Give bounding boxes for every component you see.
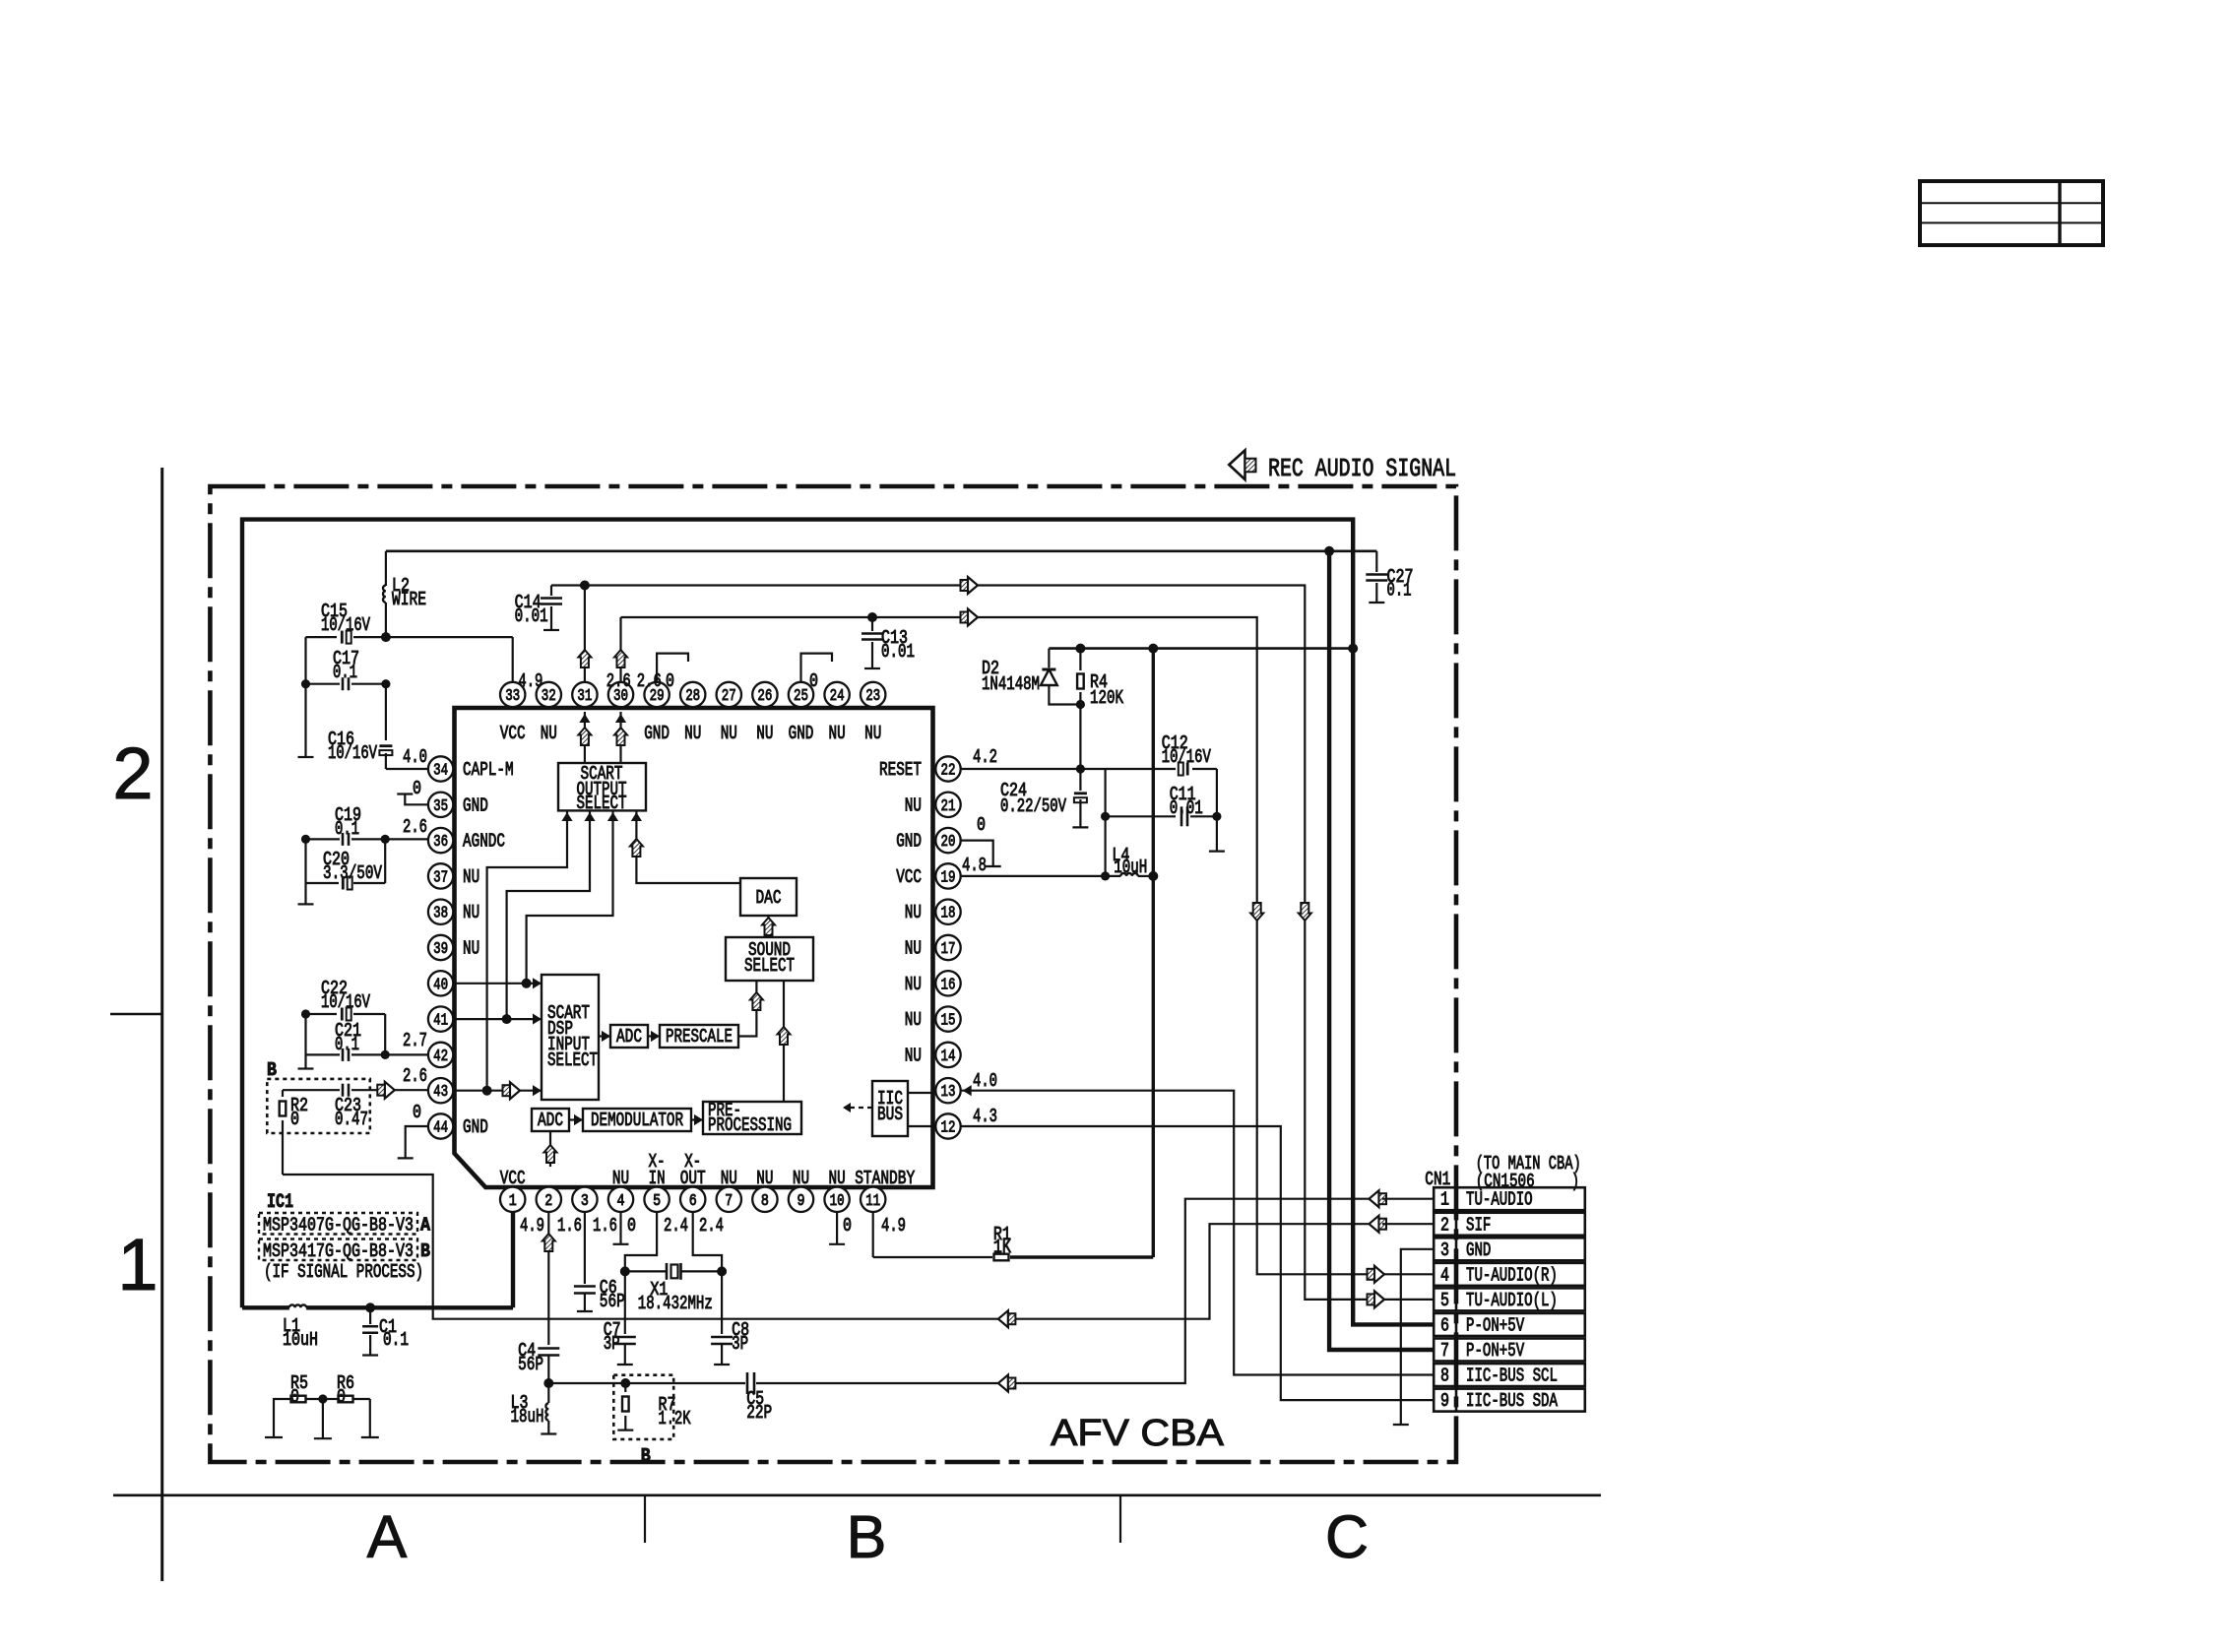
wire left rail C15/C17 (304, 637, 306, 757)
inductor L4 (1120, 873, 1137, 876)
wire P-ON+5V top bus (242, 520, 1434, 1325)
svg-text:0.01: 0.01 (515, 605, 548, 627)
capacitor C5 (746, 1372, 749, 1394)
inductor L2 (385, 551, 387, 586)
capacitor C19 (306, 838, 341, 840)
wire right rail C22/C21 (384, 1014, 386, 1054)
wire standby bus (1049, 647, 1353, 650)
svg-text:4.0: 4.0 (403, 746, 427, 768)
resistor R6 (318, 1394, 327, 1403)
svg-text:21: 21 (941, 796, 956, 815)
svg-text:VCC: VCC (500, 723, 526, 744)
svg-text:IN: IN (649, 1168, 666, 1189)
svg-text:0.22/50V: 0.22/50V (1000, 795, 1066, 817)
gnd stub above pin25 (801, 654, 833, 681)
pin 3 (572, 1187, 597, 1212)
svg-text:C: C (1325, 1503, 1369, 1570)
wire pin13 IIC SCL to row8 (961, 1091, 1434, 1375)
svg-text:IC1: IC1 (267, 1191, 293, 1214)
svg-text:MSP3407G-QG-B8-V3: MSP3407G-QG-B8-V3 (263, 1215, 414, 1237)
pin 5 (644, 1187, 669, 1212)
pin 36 (428, 828, 453, 853)
svg-text:0: 0 (290, 1386, 299, 1408)
wire standby vertical (1152, 649, 1155, 1257)
connector CN1 pin 6 P-ON+5V (1434, 1313, 1585, 1336)
svg-text:7: 7 (1440, 1340, 1449, 1362)
wire pin19 VCC line (961, 875, 1121, 877)
svg-text:P-ON+5V: P-ON+5V (1466, 1340, 1525, 1362)
crystal X1 (620, 1266, 630, 1276)
resistor R7 1.2K in B box (620, 1378, 630, 1388)
svg-text:10/16V: 10/16V (328, 742, 377, 764)
svg-text:5: 5 (1440, 1290, 1449, 1311)
pin 9 (789, 1187, 813, 1212)
svg-text:4: 4 (1440, 1264, 1449, 1286)
svg-text:27: 27 (722, 686, 736, 705)
offpage arrow TU-AUDIO(R) row4 (1374, 1266, 1384, 1283)
svg-text:(IF SIGNAL PROCESS): (IF SIGNAL PROCESS) (264, 1261, 423, 1283)
svg-text:2.4: 2.4 (699, 1215, 724, 1237)
svg-text:22: 22 (941, 761, 956, 780)
svg-text:10/16V: 10/16V (321, 614, 370, 636)
wire L2 bus (386, 549, 1329, 552)
pin 42 (428, 1043, 453, 1067)
svg-text:1: 1 (1440, 1189, 1449, 1211)
svg-text:3P: 3P (732, 1333, 748, 1355)
pin 12 (935, 1113, 960, 1138)
svg-text:NU: NU (905, 794, 922, 816)
pin 18 (935, 900, 960, 924)
node C1 junction (365, 1303, 375, 1312)
dashed arrow into IIC BUS (845, 1107, 872, 1109)
offpage arrow line A (998, 1310, 1008, 1327)
svg-text:1K: 1K (993, 1237, 1011, 1258)
block PRESCALE (660, 1025, 738, 1048)
pin 39 (428, 935, 453, 960)
svg-text:0.01: 0.01 (881, 641, 915, 663)
svg-text:0.01: 0.01 (1170, 797, 1203, 819)
wire SOUND SELECT to PRE-PROCESSING (783, 981, 785, 1102)
wire scart-out v2 to pin41 (507, 810, 590, 1019)
svg-text:24: 24 (830, 686, 845, 705)
pin 17 (935, 935, 960, 960)
svg-text:4.9: 4.9 (881, 1215, 906, 1237)
offpage arrow TU-AUDIO row1 (1370, 1190, 1379, 1207)
hatch arrow pin43 internal (510, 1082, 520, 1099)
wire pin5 X-IN (625, 1212, 657, 1271)
pin 22 (935, 756, 960, 781)
svg-text:2.7: 2.7 (403, 1030, 427, 1051)
wire pin12 IIC SDA to row9 (961, 1126, 1434, 1400)
wire ADC2 bottom stub (549, 1131, 551, 1167)
component box B dashed (R7) (613, 1375, 673, 1439)
svg-text:MSP3417G-QG-B8-V3: MSP3417G-QG-B8-V3 (263, 1240, 414, 1262)
pin 43 (428, 1078, 453, 1103)
svg-text:38: 38 (433, 904, 448, 922)
block ADC (top) (610, 1025, 648, 1048)
wire IIC BUS to pin12 (908, 1125, 935, 1127)
capacitor C7 (624, 1271, 626, 1334)
offpage arrow bus1 (968, 577, 978, 594)
svg-text:22P: 22P (746, 1402, 772, 1424)
pin 40 (428, 971, 453, 995)
offpage arrow bus2 (968, 609, 978, 626)
capacitor C11 (1106, 815, 1176, 817)
svg-text:B: B (420, 1240, 430, 1262)
svg-text:DAC: DAC (756, 887, 782, 909)
svg-text:REC AUDIO SIGNAL: REC AUDIO SIGNAL (1268, 454, 1456, 483)
wire DEMODULATOR to PRE-PROCESSING (691, 1118, 703, 1120)
svg-text:2.6: 2.6 (403, 1065, 427, 1087)
svg-text:4.8: 4.8 (962, 855, 987, 876)
pin 32 (537, 682, 561, 707)
svg-text:GND: GND (644, 723, 670, 744)
svg-text:2.4: 2.4 (664, 1215, 688, 1237)
svg-text:VCC: VCC (500, 1168, 526, 1189)
svg-text:2: 2 (1440, 1214, 1449, 1236)
connector CN1 pin 7 P-ON+5V (1434, 1339, 1585, 1362)
svg-text:0: 0 (666, 670, 674, 692)
svg-text:NU: NU (463, 902, 479, 923)
capacitor C23 (283, 1089, 340, 1091)
svg-text:25: 25 (794, 686, 808, 705)
capacitor C20 (306, 882, 340, 884)
svg-text:10uH: 10uH (283, 1329, 318, 1351)
svg-text:14: 14 (941, 1047, 956, 1065)
svg-text:31: 31 (577, 686, 592, 705)
node row7 start (1324, 546, 1334, 556)
connector CN1 pin 5 TU-AUDIO(L) (1434, 1288, 1585, 1310)
wire pin20 GND stub (961, 841, 993, 866)
svg-text:CAPL-M: CAPL-M (463, 759, 514, 781)
svg-text:10uH: 10uH (1114, 857, 1147, 878)
svg-text:42: 42 (433, 1047, 448, 1065)
svg-text:26: 26 (757, 686, 772, 705)
svg-text:TU-AUDIO(R): TU-AUDIO(R) (1466, 1264, 1558, 1286)
pin 19 (935, 863, 960, 888)
wire P-ON+5V row7 vertical (1329, 551, 1434, 1350)
svg-text:10/16V: 10/16V (321, 991, 370, 1013)
wire pin31 column internal (584, 712, 586, 763)
wire line B TU-AUDIO (548, 1382, 745, 1384)
svg-text:0: 0 (627, 1215, 636, 1237)
capacitor C24 (1076, 764, 1085, 773)
offpage arrow line B (998, 1375, 1008, 1392)
REC AUDIO SIGNAL arrow (1229, 450, 1244, 479)
svg-text:2.6: 2.6 (403, 816, 427, 838)
pin 41 (428, 1006, 453, 1031)
wire ADC2 to DEMODULATOR (569, 1118, 583, 1120)
wire IIC BUS to pin13 (908, 1092, 935, 1094)
svg-text:32: 32 (542, 686, 556, 705)
offpage arrow into pin43 (385, 1082, 395, 1099)
svg-text:10/16V: 10/16V (1162, 746, 1211, 768)
wire DAC to SOUND SELECT (767, 916, 769, 937)
svg-text:0: 0 (413, 1102, 421, 1123)
svg-text:35: 35 (433, 796, 448, 815)
connector CN1 pin 9 IIC-BUS SDA (1434, 1389, 1585, 1412)
svg-text:12: 12 (941, 1118, 956, 1137)
bottom axis line (113, 1494, 1601, 1497)
node L2/C15 (381, 632, 391, 642)
svg-text:4.0: 4.0 (973, 1070, 997, 1092)
capacitor C1 (369, 1307, 371, 1324)
svg-text:0: 0 (843, 1215, 852, 1237)
svg-text:BUS: BUS (877, 1104, 903, 1125)
wire pin35 GND stub (405, 794, 428, 805)
svg-text:7: 7 (725, 1191, 733, 1210)
svg-text:TU-AUDIO: TU-AUDIO (1466, 1189, 1533, 1211)
wire pin30 riser (619, 617, 621, 681)
pin 38 (428, 900, 453, 924)
svg-text:): ) (1571, 1171, 1579, 1192)
svg-text:16: 16 (941, 975, 956, 993)
pin 2 (537, 1187, 561, 1212)
zone divider tick 2/1 (110, 1013, 162, 1016)
svg-text:NU: NU (905, 974, 922, 995)
svg-text:NU: NU (756, 723, 773, 744)
svg-text:10: 10 (830, 1191, 845, 1210)
wire pin31 riser (584, 586, 586, 682)
wire C11 left leg (1104, 769, 1106, 876)
pin 4 (608, 1187, 633, 1212)
diode D2 1N4148M (1048, 649, 1050, 667)
board outline dash-dot border (210, 486, 1456, 1462)
wire pin40 into DSP select (453, 983, 542, 985)
IC1 part B dashed box (259, 1239, 417, 1261)
wire pin43 into DSP select (453, 1090, 542, 1092)
svg-text:TU-AUDIO(L): TU-AUDIO(L) (1466, 1290, 1558, 1311)
block IIC BUS (872, 1081, 908, 1136)
svg-text:IIC-BUS SCL: IIC-BUS SCL (1466, 1366, 1558, 1387)
svg-text:SELECT: SELECT (577, 793, 627, 814)
svg-text:2.6: 2.6 (637, 670, 662, 692)
svg-text:B: B (847, 1503, 887, 1570)
svg-text:AFV CBA: AFV CBA (1051, 1413, 1225, 1454)
svg-text:56P: 56P (518, 1354, 543, 1375)
IC U IC1 body outline (455, 708, 933, 1187)
capacitor C15 (306, 636, 338, 638)
svg-text:28: 28 (685, 686, 700, 705)
svg-text:NU: NU (541, 723, 557, 744)
hatch arrow on TU-AUDIO(L) drop (1299, 903, 1311, 921)
svg-text:IIC-BUS SDA: IIC-BUS SDA (1466, 1390, 1558, 1412)
wire ADC to PRESCALE (648, 1035, 660, 1037)
node C19/C20 right rail (381, 835, 390, 844)
svg-text:STANDBY: STANDBY (855, 1168, 915, 1189)
svg-text:SIF: SIF (1466, 1214, 1491, 1236)
block DAC (740, 878, 797, 916)
svg-text:OUT: OUT (680, 1168, 706, 1189)
svg-text:NU: NU (829, 1168, 846, 1189)
pin 44 (428, 1113, 453, 1138)
svg-text:NU: NU (864, 723, 881, 744)
resistor R4 120K (1079, 649, 1081, 670)
svg-text:WIRE: WIRE (392, 589, 426, 610)
svg-text:1: 1 (117, 1224, 158, 1305)
wire pin2 column (547, 1212, 549, 1345)
svg-text:GND: GND (789, 723, 814, 744)
capacitor C21 (306, 1053, 341, 1055)
svg-text:23: 23 (865, 686, 880, 705)
pin 21 (935, 793, 960, 817)
svg-text:8: 8 (1440, 1366, 1449, 1387)
svg-text:ADC: ADC (616, 1026, 642, 1048)
svg-text:NU: NU (684, 723, 701, 744)
block PRE-PROCESSING (703, 1102, 801, 1134)
wire C21 to pin42 (385, 1053, 428, 1055)
svg-text:36: 36 (433, 832, 448, 851)
offpage arrow SIF row2 (1370, 1216, 1379, 1233)
svg-text:A: A (367, 1503, 408, 1570)
IC1 part A dashed box (259, 1213, 417, 1235)
wire pin6 X-OUT (693, 1212, 722, 1271)
capacitor C4 (538, 1347, 559, 1350)
resistor R5 (274, 1399, 291, 1437)
pin 27 (717, 682, 741, 707)
capacitor C12 (1179, 763, 1183, 776)
svg-text:NU: NU (905, 1009, 922, 1031)
capacitor C13 (867, 612, 877, 622)
wire PRESCALE to SOUND SELECT (738, 981, 756, 1037)
pin 15 (935, 1006, 960, 1031)
svg-text:RESET: RESET (879, 759, 922, 781)
svg-text:SELECT: SELECT (744, 955, 795, 977)
node pin31 top (580, 581, 590, 591)
svg-text:0.1: 0.1 (335, 1034, 359, 1055)
revision table top right (1920, 181, 2103, 245)
svg-text:1.6: 1.6 (593, 1215, 617, 1237)
svg-text:0.1: 0.1 (1387, 580, 1412, 602)
pin 34 (428, 756, 453, 781)
block ADC (bottom) (532, 1109, 569, 1131)
svg-text:2.6: 2.6 (606, 670, 631, 692)
svg-text:VCC: VCC (896, 866, 922, 888)
zone rule vertical line (160, 468, 163, 1581)
block SCART DSP INPUT SELECT (542, 975, 599, 1100)
wire scart-out v3 to pin40 (527, 810, 613, 983)
inductor L3 (547, 1383, 549, 1403)
svg-text:1N4148M: 1N4148M (982, 673, 1040, 695)
wire bus1 C14/pin31 to TU-AUDIO(L) (551, 586, 1370, 1300)
svg-text:GND: GND (1466, 1239, 1491, 1261)
pin 24 (824, 682, 849, 707)
pin 16 (935, 971, 960, 995)
svg-text:43: 43 (433, 1082, 448, 1101)
svg-text:0.1: 0.1 (335, 818, 359, 840)
wire pin1 VCC drop (511, 1212, 515, 1308)
pin 37 (428, 863, 453, 888)
wire pin44 GND stub (406, 1126, 428, 1158)
node C17 right (381, 679, 390, 688)
svg-text:40: 40 (433, 975, 448, 993)
svg-text:19: 19 (941, 867, 956, 886)
pin 1 (500, 1187, 525, 1212)
svg-text:4.3: 4.3 (973, 1106, 997, 1127)
svg-text:15: 15 (941, 1011, 956, 1030)
wire pin41 into DSP select (453, 1018, 542, 1020)
wire pin4 stub (619, 1212, 621, 1244)
svg-text:4.2: 4.2 (973, 746, 997, 768)
svg-text:2: 2 (544, 1191, 552, 1210)
wire DSP to ADC (599, 1035, 610, 1037)
pin 25 (789, 682, 813, 707)
svg-text:120K: 120K (1090, 687, 1123, 709)
pin 28 (680, 682, 705, 707)
connector CN1 pin 3 GND (1434, 1238, 1585, 1260)
svg-text:18uH: 18uH (511, 1406, 544, 1428)
svg-text:B: B (641, 1445, 651, 1467)
svg-text:44: 44 (433, 1118, 448, 1137)
capacitor C14 (550, 586, 552, 597)
pin 29 (644, 682, 669, 707)
connector CN1 pin 2 SIF (1434, 1213, 1585, 1236)
svg-text:NU: NU (756, 1168, 773, 1189)
wire bus2 pin30/C13 to TU-AUDIO(R) (621, 617, 1370, 1274)
connector CN1 pin 1 TU-AUDIO (1434, 1187, 1585, 1210)
pin 26 (752, 682, 777, 707)
pin 6 (680, 1187, 705, 1212)
svg-text:3P: 3P (604, 1333, 620, 1355)
hatch arrow on TU-AUDIO(R) drop (1250, 903, 1263, 921)
svg-text:6: 6 (689, 1191, 697, 1210)
component box B dashed (267, 1079, 370, 1133)
axis tick A/B (644, 1495, 646, 1543)
svg-text:NU: NU (721, 723, 737, 744)
svg-text:34: 34 (433, 761, 448, 780)
svg-text:NU: NU (612, 1168, 629, 1189)
pin 33 (500, 682, 525, 707)
pin 30 (608, 682, 633, 707)
svg-text:AGNDC: AGNDC (463, 831, 505, 853)
pin 13 (935, 1078, 960, 1103)
svg-text:3.3/50V: 3.3/50V (323, 862, 382, 884)
wire pin10 stub (836, 1212, 838, 1244)
node C17 left (301, 679, 310, 688)
svg-text:DEMODULATOR: DEMODULATOR (591, 1110, 683, 1131)
pin 10 (824, 1187, 849, 1212)
pin 31 (572, 682, 597, 707)
wire C15 to pin33 (386, 636, 513, 638)
resistor R1 1K (872, 1212, 874, 1257)
svg-text:0: 0 (809, 670, 818, 692)
svg-text:17: 17 (941, 939, 956, 958)
svg-text:9: 9 (1440, 1390, 1449, 1412)
wire R2 to SIF line (line A) (283, 1175, 1370, 1319)
svg-text:0.47: 0.47 (335, 1109, 368, 1130)
inductor L1 (242, 1305, 289, 1309)
svg-text:PROCESSING: PROCESSING (708, 1114, 792, 1136)
svg-text:P-ON+5V: P-ON+5V (1466, 1314, 1525, 1336)
wire L2 column to C16 (385, 684, 387, 740)
capacitor C22 (306, 1013, 338, 1015)
offpage arrow TU-AUDIO(L) row5 (1374, 1291, 1384, 1307)
wire C19 to pin36 (385, 838, 428, 840)
svg-text:11: 11 (865, 1191, 880, 1210)
svg-text:37: 37 (433, 867, 448, 886)
svg-text:9: 9 (797, 1191, 805, 1210)
block SOUND SELECT (726, 937, 813, 981)
svg-text:3: 3 (581, 1191, 589, 1210)
wire pin3 column / capacitor C6 (584, 1212, 586, 1284)
svg-text:1.6: 1.6 (557, 1215, 582, 1237)
svg-text:NU: NU (905, 1045, 922, 1066)
svg-text:5: 5 (653, 1191, 661, 1210)
pin 11 (861, 1187, 885, 1212)
svg-text:33: 33 (505, 686, 520, 705)
svg-text:GND: GND (463, 794, 488, 816)
gnd stub above pin29 (657, 654, 688, 681)
